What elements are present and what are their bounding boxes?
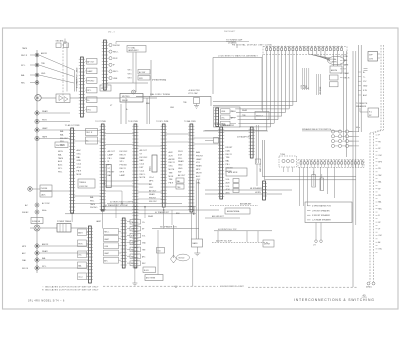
svg-text:L FRONT SPEAKER: L FRONT SPEAKER bbox=[312, 209, 330, 212]
label strip P3 header bbox=[128, 121, 138, 123]
svg-text:TAPE: TAPE bbox=[42, 135, 48, 138]
label strip P6 header bbox=[214, 123, 226, 126]
svg-text:4CH: 4CH bbox=[178, 154, 183, 156]
label box dial lamp assy bbox=[127, 46, 146, 53]
svg-text:MON: MON bbox=[60, 145, 65, 147]
svg-text:REC: REC bbox=[21, 82, 26, 84]
wire interconnect c bbox=[138, 129, 163, 131]
jack J5 speaker terminal bbox=[35, 119, 70, 123]
volume strip ladder bbox=[263, 181, 267, 200]
svg-text:POWER TRANS: POWER TRANS bbox=[57, 220, 72, 223]
svg-text:SPEAKERS: SPEAKERS bbox=[356, 105, 367, 108]
wire interconnect a bbox=[74, 130, 101, 132]
switch S1 ac bbox=[138, 70, 150, 75]
monitor assy box 1 bbox=[221, 109, 237, 114]
svg-text:VT: VT bbox=[378, 229, 380, 231]
svg-text:REC L: REC L bbox=[140, 174, 147, 176]
selector switch row outline bbox=[298, 160, 364, 168]
wires selector drops bbox=[300, 167, 335, 206]
svg-text:REAR: REAR bbox=[178, 160, 184, 163]
pin labels strip P2 upper bbox=[90, 196, 98, 209]
svg-text:(FM ANTENNA): (FM ANTENNA) bbox=[152, 79, 167, 82]
title INTERCONNECTIONS & SWITCHING bbox=[294, 298, 375, 302]
wire volume to selector bbox=[262, 177, 356, 180]
svg-text:PB R: PB R bbox=[113, 58, 118, 60]
jack J12 aux input bbox=[22, 257, 88, 262]
svg-text:GND: GND bbox=[178, 168, 183, 170]
svg-text:LAMPS: LAMPS bbox=[331, 61, 338, 64]
module box M7 bbox=[127, 261, 146, 266]
svg-text:AGC: AGC bbox=[363, 94, 368, 97]
svg-text:TAPE: TAPE bbox=[22, 47, 28, 50]
wire antenna pair bbox=[63, 44, 67, 96]
label to remote spk bbox=[356, 103, 368, 108]
svg-text:LAMP: LAMP bbox=[120, 174, 126, 177]
svg-text:AF OUT: AF OUT bbox=[140, 149, 148, 152]
slide switch SW-A bbox=[312, 171, 316, 187]
dashed bus upper 2 bbox=[383, 45, 385, 130]
connector strip CN1 bbox=[79, 57, 85, 117]
svg-text:4B SPEAKER: 4B SPEAKER bbox=[250, 187, 262, 190]
svg-text:HORN: HORN bbox=[255, 192, 261, 194]
svg-text:CD-4: CD-4 bbox=[78, 277, 82, 279]
rotated label 4 conductor cable bbox=[76, 67, 79, 88]
connector strip P4 bbox=[161, 124, 167, 207]
label monitor assy right bbox=[237, 109, 251, 139]
monitor assy strip ticks bbox=[214, 108, 219, 127]
wire drop selector bus a bbox=[115, 204, 117, 219]
svg-text:GND: GND bbox=[170, 107, 175, 109]
pin labels strip P5 right bbox=[196, 151, 204, 185]
jack J2 tape in bbox=[21, 63, 74, 77]
svg-text:TAPE: TAPE bbox=[344, 63, 350, 66]
svg-text:TO BAL PWB: TO BAL PWB bbox=[184, 120, 196, 123]
wire long right H bbox=[346, 51, 348, 157]
wire bundle tone left bbox=[301, 68, 309, 90]
svg-text:MON: MON bbox=[169, 176, 174, 178]
marks 4ohm bbox=[356, 127, 360, 129]
pin labels strip P6 lower right bbox=[226, 179, 231, 195]
connector strip P5 bbox=[188, 124, 194, 212]
antenna terminal box bbox=[145, 275, 163, 281]
svg-text:B-505: B-505 bbox=[144, 270, 149, 272]
svg-text:REAR: REAR bbox=[131, 242, 136, 245]
jack J6 speaker terminal bbox=[35, 127, 70, 132]
capacitor C50 box bbox=[157, 248, 165, 254]
svg-text:117V: 117V bbox=[369, 59, 374, 61]
svg-text:AF OUT: AF OUT bbox=[149, 190, 157, 193]
wire front full bbox=[214, 229, 272, 231]
jack J4 speaker terminal bbox=[35, 110, 70, 115]
label strip P2 header bbox=[95, 121, 106, 123]
ground sym cn3 bbox=[132, 283, 137, 286]
module box M3 bbox=[127, 233, 145, 238]
jack J8 ac outlet bbox=[25, 203, 39, 207]
pilot lamp DS2 bbox=[108, 50, 118, 53]
drawing number text bbox=[28, 301, 65, 303]
svg-text:+B ELECTRO: +B ELECTRO bbox=[188, 90, 200, 92]
wire x193 drop bbox=[191, 229, 192, 287]
am antenna box bbox=[225, 208, 250, 214]
svg-text:4CH ADAPTOR 4: 4CH ADAPTOR 4 bbox=[237, 136, 251, 139]
svg-text:VOL: VOL bbox=[221, 117, 225, 119]
wire pin drop right F bbox=[336, 51, 338, 66]
svg-text:4 SPKR MATRIX POS: 4 SPKR MATRIX POS bbox=[312, 205, 332, 208]
svg-text:REC R: REC R bbox=[344, 77, 351, 79]
wire drop x126 bbox=[125, 98, 127, 124]
svg-text:SP L: SP L bbox=[87, 90, 91, 92]
volume control bundle bbox=[259, 140, 265, 180]
headphone box A bbox=[40, 185, 52, 191]
wire loudness loop bbox=[213, 54, 262, 110]
supply labels column bbox=[359, 72, 368, 97]
wire interconnect t bbox=[105, 191, 122, 204]
module box M5 bbox=[127, 247, 146, 252]
connector strip P2 bbox=[100, 124, 106, 211]
pin labels strip P6 right bbox=[226, 147, 234, 173]
svg-text:4Ω ±: 4Ω ± bbox=[356, 127, 360, 129]
svg-text:LAMP: LAMP bbox=[42, 127, 48, 130]
jack J3 tape in bbox=[21, 73, 74, 83]
wire transformer to board bbox=[71, 227, 87, 229]
pilot lamp DS4 bbox=[108, 63, 115, 66]
module box left N1 bbox=[104, 229, 121, 235]
svg-text:IF: IF bbox=[378, 215, 380, 217]
svg-text:★ INDICATES 2CH POSITION OF SW: ★ INDICATES 2CH POSITION OF SWITCH ONLY bbox=[42, 289, 99, 292]
svg-text:AF O: AF O bbox=[231, 116, 236, 119]
wire ac to transformer bbox=[40, 227, 57, 229]
wire drop x211 bbox=[210, 96, 212, 106]
svg-text:TONE: TONE bbox=[280, 154, 286, 156]
wire right rail 2 bbox=[360, 45, 362, 132]
svg-text:VOL: VOL bbox=[78, 255, 82, 257]
extra long vertical x356 bbox=[355, 51, 357, 225]
module box M4 bbox=[127, 240, 147, 245]
svg-text:TO VT PWB: TO VT PWB bbox=[95, 121, 106, 123]
wire sw vertical bbox=[150, 60, 152, 96]
svg-text:AM RF: AM RF bbox=[169, 158, 176, 161]
wire legend drop 1 bbox=[315, 223, 317, 241]
svg-text:TO SP L PWB: TO SP L PWB bbox=[156, 121, 169, 123]
svg-text:REC L: REC L bbox=[113, 71, 119, 73]
secondary box S3 bbox=[78, 251, 89, 258]
wire legend drop 2 bbox=[320, 223, 322, 241]
wire drop x121 bbox=[120, 104, 122, 124]
voltage box top right bbox=[368, 52, 380, 62]
wire selector bus 2 bbox=[103, 204, 196, 207]
svg-text:FUSE 2A: FUSE 2A bbox=[32, 220, 41, 223]
ground sym balance bbox=[194, 247, 200, 256]
svg-text:VR 6: VR 6 bbox=[128, 74, 132, 76]
svg-text:AF: AF bbox=[378, 241, 380, 244]
module box left N3 bbox=[104, 243, 121, 249]
wire selector bus 1 bbox=[107, 202, 182, 204]
ac plug P1 bbox=[30, 225, 40, 231]
wire drop P1 bottom bbox=[71, 213, 73, 222]
svg-text:REAR: REAR bbox=[344, 72, 350, 75]
wire drop P5 bottom bbox=[190, 212, 192, 229]
phones jack box bbox=[55, 142, 68, 148]
pin labels strip P2 right bbox=[108, 150, 116, 177]
svg-text:REAR: REAR bbox=[148, 215, 154, 218]
terminal block TB6 bbox=[85, 107, 97, 113]
wire long right G bbox=[343, 51, 345, 140]
connector row P201 pins bbox=[266, 46, 343, 51]
svg-text:LOUD SW: LOUD SW bbox=[79, 186, 88, 188]
secondary box S1 bbox=[78, 229, 89, 236]
wire drop selector bus c bbox=[171, 210, 173, 225]
svg-text:HA1156: HA1156 bbox=[103, 180, 106, 186]
svg-text:4L LEFT TILL SUP: 4L LEFT TILL SUP bbox=[216, 241, 233, 243]
svg-text:AUX: AUX bbox=[58, 160, 63, 163]
label digital row header bbox=[232, 43, 272, 46]
connector strip CN3 bbox=[121, 218, 127, 268]
pilot lamp DS5 bbox=[108, 70, 118, 73]
wire dial cord top run bbox=[116, 42, 236, 45]
svg-text:BA511: BA511 bbox=[149, 166, 152, 171]
svg-text:AC SW: AC SW bbox=[139, 71, 145, 74]
tiny header text left bbox=[108, 32, 115, 34]
tape monitor box bbox=[226, 168, 247, 176]
svg-text:REAR: REAR bbox=[242, 109, 248, 112]
svg-text:IF: IF bbox=[378, 135, 380, 137]
jack J13 aux input bbox=[22, 266, 88, 270]
wire interconnect s bbox=[166, 196, 190, 198]
wire interconnect m bbox=[138, 145, 163, 147]
svg-text:ANT TERM: ANT TERM bbox=[146, 277, 156, 280]
pin labels strip P1 bbox=[77, 149, 83, 176]
cable bundle down bbox=[75, 70, 77, 92]
speaker selector contacts grid bbox=[331, 130, 352, 148]
svg-text:TO TONE: TO TONE bbox=[320, 86, 322, 94]
label strip P1 header bbox=[65, 124, 80, 127]
svg-text:TO AUX PWB: TO AUX PWB bbox=[214, 123, 226, 126]
svg-text:REC L: REC L bbox=[113, 51, 119, 53]
wire interconnect d bbox=[166, 133, 190, 135]
wire interconnect h bbox=[166, 186, 176, 188]
node dot preamp bbox=[36, 97, 37, 98]
wire dial cord run bbox=[136, 93, 211, 96]
wire cn2 bus bbox=[107, 53, 148, 84]
wire interconnect k bbox=[74, 140, 101, 142]
svg-text:4CH DECODER CD-4 UNIT: 4CH DECODER CD-4 UNIT bbox=[220, 286, 244, 288]
svg-text:SW: SW bbox=[131, 256, 134, 258]
svg-text:MPX: MPX bbox=[149, 180, 154, 182]
wire right rail 1 bbox=[357, 45, 359, 132]
svg-text:OSC: OSC bbox=[149, 187, 154, 189]
capacitor C201 block bbox=[330, 75, 339, 87]
svg-text:PHONO: PHONO bbox=[90, 207, 98, 209]
svg-text:L+R REAR SPEAKER: L+R REAR SPEAKER bbox=[312, 219, 331, 222]
svg-text:LAMP: LAMP bbox=[96, 220, 102, 223]
svg-text:AM RF: AM RF bbox=[42, 243, 49, 246]
ground sym c1 bbox=[194, 106, 199, 109]
wire pin drop right E bbox=[332, 51, 334, 66]
label strip P5 header bbox=[184, 120, 196, 123]
svg-text:PHONO: PHONO bbox=[120, 165, 128, 167]
resistor box B bbox=[143, 267, 156, 273]
jack J7 speaker terminal bbox=[35, 135, 70, 140]
wire interconnect r bbox=[138, 198, 163, 200]
wire interconnect e bbox=[105, 180, 134, 182]
pin labels strip P5 left bbox=[178, 151, 186, 177]
wire antenna drop bbox=[173, 225, 175, 258]
secondary box S5 bbox=[78, 273, 89, 280]
secondary box S2 bbox=[78, 240, 89, 247]
svg-text:4L SELECTOR TO LIGHTS: 4L SELECTOR TO LIGHTS bbox=[110, 202, 134, 204]
svg-text:BALANCE: BALANCE bbox=[192, 206, 195, 215]
value labels scatter 2 bbox=[96, 212, 180, 223]
svg-text:PB L: PB L bbox=[231, 111, 235, 113]
label speaker selector switch bbox=[302, 128, 341, 131]
svg-text:AM ANTENNA: AM ANTENNA bbox=[227, 210, 240, 213]
relay K1 bbox=[120, 94, 143, 103]
label chassis line bbox=[220, 286, 244, 288]
labels VR column bbox=[128, 70, 132, 80]
svg-text:SW: SW bbox=[131, 249, 134, 251]
svg-text:RELAY: RELAY bbox=[122, 99, 129, 102]
pin labels strip P1 upper bbox=[60, 130, 68, 147]
svg-text:LOUD NESS TO MAIN VOL ASSEMBLY: LOUD NESS TO MAIN VOL ASSEMBLY bbox=[218, 54, 259, 57]
wire phones to strip bbox=[52, 190, 71, 192]
svg-text:TO IF PWB: TO IF PWB bbox=[128, 121, 138, 123]
tone control box dashed bbox=[279, 154, 297, 172]
svg-text:AUX: AUX bbox=[169, 151, 174, 154]
pin labels strip P3 right bbox=[140, 149, 148, 179]
pin labels right margin bbox=[376, 135, 383, 253]
svg-text:SW AC: SW AC bbox=[22, 211, 29, 214]
svg-text:REC L: REC L bbox=[104, 232, 109, 234]
wire x158 drop bbox=[157, 230, 159, 275]
connector strip P1 bbox=[69, 128, 75, 213]
svg-text:PB R: PB R bbox=[78, 244, 83, 246]
svg-text:TRE: TRE bbox=[226, 157, 231, 159]
terminal block TB5 bbox=[85, 97, 97, 103]
svg-text:PB R: PB R bbox=[178, 151, 183, 153]
svg-text:AUX: AUX bbox=[226, 181, 231, 184]
sheet number 40 bbox=[362, 293, 368, 297]
wire am gnd ext bbox=[205, 215, 240, 218]
connector strip P6 bbox=[218, 127, 224, 199]
svg-text:60Hz: 60Hz bbox=[42, 210, 46, 212]
svg-text:TO REMOTE: TO REMOTE bbox=[356, 103, 368, 105]
svg-text:PHONE: PHONE bbox=[41, 188, 48, 190]
svg-text:☆ INDICATES 4CH POSITION OF SW: ☆ INDICATES 4CH POSITION OF SWITCH ONLY bbox=[42, 286, 99, 289]
wire bundle tone right bbox=[317, 74, 322, 95]
secondary box S4 bbox=[78, 262, 89, 269]
wire long right I bbox=[352, 51, 354, 287]
svg-text:LAMP: LAMP bbox=[87, 70, 93, 73]
balance box stack bbox=[176, 178, 184, 189]
svg-text:4 CONDUCTOR CABLE: 4 CONDUCTOR CABLE bbox=[76, 67, 79, 88]
label ac line bbox=[42, 202, 50, 212]
module box M2 bbox=[127, 226, 145, 231]
chassis ground dashed line bbox=[103, 286, 357, 287]
svg-text:GND: GND bbox=[41, 73, 46, 75]
gnd mark chassis left bbox=[174, 286, 178, 287]
monitor assy extra text bbox=[222, 111, 236, 127]
svg-text:BAL: BAL bbox=[177, 180, 180, 183]
svg-text:4CH: 4CH bbox=[77, 167, 82, 169]
svg-text:AF OUT: AF OUT bbox=[87, 60, 95, 63]
svg-text:AM BAR ANT: AM BAR ANT bbox=[240, 202, 252, 205]
wire interconnect n bbox=[166, 141, 190, 143]
wire am bar antenna bbox=[210, 202, 258, 205]
wire interconnect b bbox=[105, 133, 134, 135]
svg-text:NO SPEAKER SYS: NO SPEAKER SYS bbox=[160, 226, 177, 229]
svg-text:FRONT: FRONT bbox=[226, 147, 234, 149]
wire lamp assy drop bbox=[135, 52, 137, 92]
wire tuning cap drop bbox=[236, 44, 238, 48]
svg-text:TO TUNING CAP: TO TUNING CAP bbox=[226, 39, 243, 42]
svg-text:PHONO: PHONO bbox=[113, 45, 120, 47]
svg-text:MUTE: MUTE bbox=[196, 172, 202, 174]
svg-text:AM FM: AM FM bbox=[331, 69, 338, 72]
svg-text:MPX: MPX bbox=[196, 169, 201, 171]
tuning pulley bbox=[132, 90, 136, 94]
wire preamp output bbox=[41, 97, 120, 99]
svg-text:AGC: AGC bbox=[77, 149, 82, 152]
svg-text:(GND): (GND) bbox=[366, 287, 372, 289]
junction marks mid right bbox=[364, 68, 368, 70]
junction dots band bbox=[102, 203, 164, 211]
svg-text:INTERCONNECTIONS & SWITCHING: INTERCONNECTIONS & SWITCHING bbox=[294, 298, 375, 302]
svg-text:TRE: TRE bbox=[169, 179, 174, 181]
label oval no300 bbox=[177, 254, 190, 261]
svg-text:AF OUT: AF OUT bbox=[108, 150, 116, 153]
svg-text:LYTIC CAP: LYTIC CAP bbox=[188, 92, 198, 95]
svg-text:4L TRANSPORT SYSTEM: 4L TRANSPORT SYSTEM bbox=[105, 204, 128, 207]
switch S2 spk bbox=[138, 76, 150, 81]
wire interconnect j bbox=[138, 191, 163, 193]
svg-text:TO DIAL: TO DIAL bbox=[128, 46, 135, 49]
svg-text:FRONT: FRONT bbox=[149, 197, 157, 199]
svg-text:4L TRANSPORT: 4L TRANSPORT bbox=[155, 211, 170, 214]
svg-text:REC R: REC R bbox=[226, 154, 233, 156]
svg-text:FM OSC: FM OSC bbox=[140, 157, 148, 159]
wires bottom drops bbox=[218, 231, 258, 242]
svg-text:4SPKR: 4SPKR bbox=[264, 244, 271, 246]
svg-text:PB R: PB R bbox=[77, 170, 82, 172]
treble loud box bbox=[78, 179, 95, 188]
svg-text:GND: GND bbox=[363, 86, 368, 88]
svg-text:JRL 4RX MODEL 5/74 – 6: JRL 4RX MODEL 5/74 – 6 bbox=[28, 301, 65, 303]
terminal pair top left bbox=[56, 40, 69, 48]
svg-text:VOL: VOL bbox=[87, 109, 91, 111]
svg-text:GND: GND bbox=[77, 160, 82, 162]
label to tuning capacitor bbox=[226, 39, 249, 45]
svg-text:REC R: REC R bbox=[120, 168, 127, 170]
footnote line 2 bbox=[42, 289, 99, 292]
pin labels strip P4 left bbox=[149, 177, 157, 203]
module box M6 bbox=[127, 254, 146, 259]
jack J3b din bbox=[21, 81, 39, 85]
monitor assy box 3 bbox=[221, 121, 237, 126]
svg-text:OSC: OSC bbox=[169, 166, 174, 168]
wire speaker sys bbox=[152, 226, 199, 229]
svg-text:AF OUT: AF OUT bbox=[178, 174, 186, 177]
svg-text:VR 8: VR 8 bbox=[128, 78, 132, 80]
label b+ electrolytic bbox=[188, 90, 200, 95]
connector strip CN2 bbox=[102, 40, 108, 90]
svg-text:SW: SW bbox=[178, 171, 181, 173]
svg-text:FM OS: FM OS bbox=[22, 268, 29, 270]
svg-text:BAS: BAS bbox=[140, 159, 145, 162]
wire interconnect p bbox=[194, 143, 220, 145]
module box left N5 bbox=[104, 257, 121, 263]
svg-text:BAL: BAL bbox=[378, 181, 381, 184]
headphone box B bbox=[40, 192, 52, 198]
